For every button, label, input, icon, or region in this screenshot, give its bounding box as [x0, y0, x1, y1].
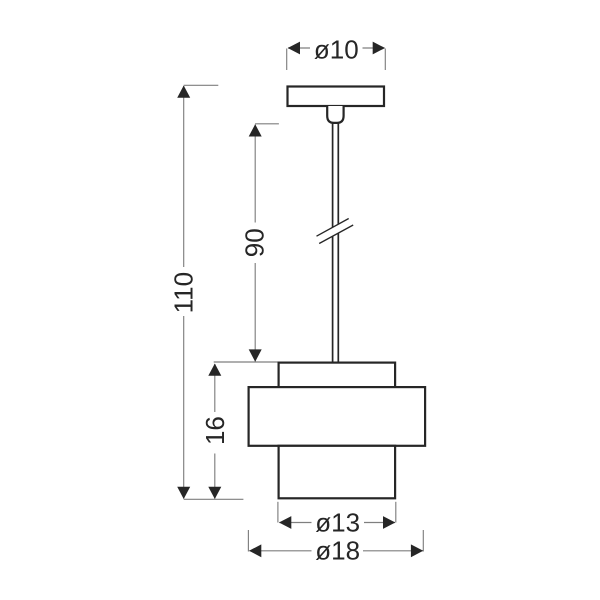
dimension 16 [200, 362, 278, 499]
arrowhead up [249, 124, 262, 136]
arrowhead up [208, 364, 221, 376]
dimension ø10 [287, 34, 386, 70]
arrowhead down [208, 487, 221, 499]
cord holder [327, 106, 343, 123]
arrowhead right [411, 544, 423, 557]
extension stub top [184, 84, 219, 86]
svg-text:110: 110 [169, 272, 199, 313]
arrowhead left [279, 516, 291, 529]
cord wire left strand [332, 123, 334, 362]
dimension line lower segment [254, 263, 256, 362]
dimension line left segment [279, 522, 311, 524]
dimension 90 [240, 124, 279, 362]
extension line right [422, 530, 424, 552]
svg-text:ø13: ø13 [315, 507, 360, 537]
extension line left [286, 49, 288, 71]
extension line left [277, 502, 279, 523]
extension line right [384, 49, 386, 71]
arrowhead down [249, 349, 262, 361]
extension stub top [214, 361, 278, 363]
dimension ø13 [278, 502, 396, 538]
dimension line right segment [364, 522, 395, 524]
ceiling plate [288, 87, 385, 107]
dimension line upper segment [183, 86, 185, 267]
arrowhead left [249, 544, 261, 557]
arrowhead right [373, 42, 385, 55]
svg-text:90: 90 [240, 228, 270, 257]
dimension line left segment [249, 550, 311, 552]
cord break slash upper [317, 219, 349, 237]
arrowhead down [177, 487, 190, 499]
cord break slash lower [319, 225, 353, 244]
cord break gap [317, 219, 354, 244]
extension line left [247, 530, 249, 552]
dimension line lower segment [214, 454, 216, 499]
dimension line lower segment [183, 316, 185, 499]
svg-text:ø18: ø18 [315, 535, 360, 565]
lamp middle band [249, 387, 426, 446]
dimension line upper segment [254, 125, 256, 223]
arrowhead right [383, 516, 395, 529]
svg-text:16: 16 [200, 416, 230, 445]
dimension line right segment [363, 550, 423, 552]
lamp upper section [279, 363, 396, 388]
dimension 110 [169, 85, 244, 499]
dimension line right segment [363, 47, 385, 49]
cord wire right strand [337, 123, 339, 362]
dimension line upper segment [214, 364, 216, 412]
extension stub top [255, 123, 279, 125]
arrowhead left [288, 42, 300, 55]
extension line right [395, 502, 397, 523]
arrowhead up [177, 86, 190, 98]
extension stub bottom [184, 498, 244, 500]
lamp lower section [279, 446, 396, 499]
svg-text:ø10: ø10 [314, 34, 359, 64]
dimension ø18 [248, 530, 423, 565]
dimension line left segment [288, 47, 310, 49]
